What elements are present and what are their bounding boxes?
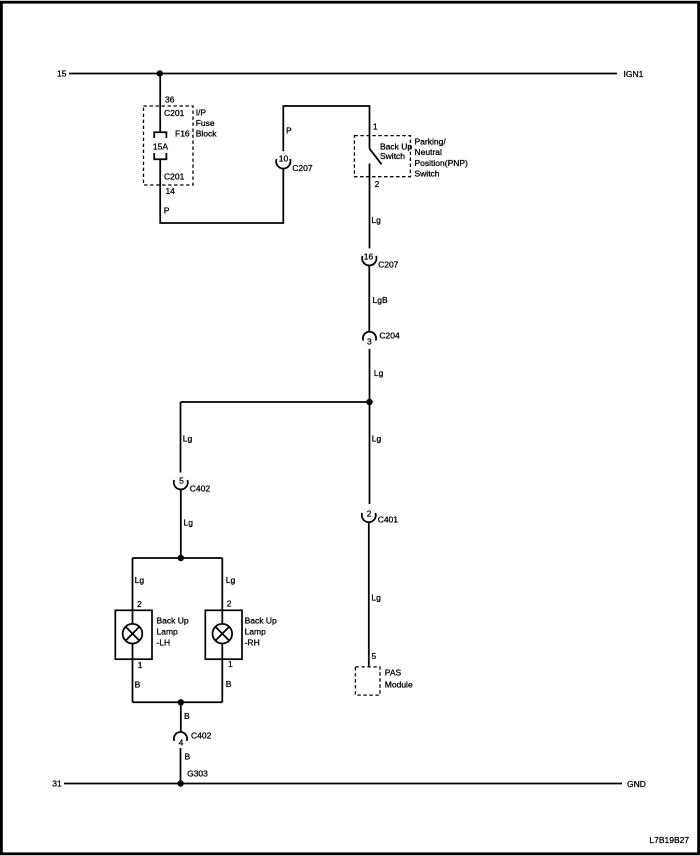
svg-text:I/P: I/P <box>196 107 207 117</box>
svg-text:GND: GND <box>627 779 646 789</box>
svg-text:G303: G303 <box>187 769 208 779</box>
svg-text:L7B19B27: L7B19B27 <box>649 835 689 845</box>
connector C402 pin 4 half-circle <box>174 732 187 741</box>
wire P from fuse to C207 <box>160 159 283 223</box>
wire branch to lamps <box>181 401 370 403</box>
svg-text:P: P <box>286 126 292 136</box>
wire Lg drop to back up lamp RH <box>221 558 223 624</box>
svg-text:Neutral: Neutral <box>415 147 443 157</box>
connector C207 pin 16 half-circle <box>362 256 376 266</box>
svg-text:Back Up: Back Up <box>380 141 412 151</box>
svg-text:Lamp: Lamp <box>157 627 179 637</box>
wire 31/GND ground line <box>64 783 622 785</box>
wire Lg from switch pin 2 to C207 pin 16 <box>369 164 371 249</box>
svg-text:Block: Block <box>196 128 218 138</box>
svg-text:2: 2 <box>227 598 232 608</box>
svg-text:1: 1 <box>373 122 378 132</box>
wire Lg from C204 to branch junction <box>369 349 371 402</box>
svg-text:Lg: Lg <box>374 368 384 378</box>
svg-text:3: 3 <box>367 336 372 346</box>
wire 15/IGN1 feed (top horizontal) <box>69 73 617 75</box>
I/P fuse block dashed box <box>144 106 194 185</box>
PAS module dashed box <box>355 667 380 695</box>
wire B from lamp RH to bottom rail <box>221 644 223 703</box>
svg-text:C207: C207 <box>378 260 399 270</box>
connector C204 pin 3 half-circle <box>363 332 376 341</box>
svg-text:Lg: Lg <box>372 434 382 444</box>
svg-text:C204: C204 <box>379 330 400 340</box>
svg-text:Lamp: Lamp <box>245 627 267 637</box>
node ground G303 junction <box>177 780 183 786</box>
svg-text:Lg: Lg <box>183 434 193 444</box>
svg-text:2: 2 <box>375 179 380 189</box>
back up lamp LH bulb circle <box>123 624 143 644</box>
svg-text:Switch: Switch <box>380 151 405 161</box>
wire LgB from C207 to C204 <box>368 266 370 332</box>
wire B from C402 to G303 <box>180 748 182 784</box>
back up lamp LH bulb cross <box>126 627 140 641</box>
svg-text:14: 14 <box>166 186 176 196</box>
wire B from rail to C402 pin 4 <box>180 702 182 732</box>
svg-text:4: 4 <box>179 738 184 748</box>
svg-text:Module: Module <box>385 680 413 690</box>
wire lamp bottom rail <box>133 701 223 703</box>
svg-text:C402: C402 <box>190 484 211 494</box>
back up switch blade <box>370 149 382 165</box>
back up lamp LH box <box>115 610 152 659</box>
svg-text:1: 1 <box>228 659 233 669</box>
svg-text:LgB: LgB <box>373 295 388 305</box>
svg-text:16: 16 <box>364 252 374 262</box>
svg-text:Switch: Switch <box>415 168 440 178</box>
back up lamp RH box <box>205 610 242 659</box>
svg-text:1: 1 <box>138 660 143 670</box>
svg-text:Back Up: Back Up <box>245 615 277 625</box>
wire from junction into fuse block <box>159 74 161 133</box>
svg-text:PAS: PAS <box>385 668 402 678</box>
svg-text:IGN1: IGN1 <box>624 69 644 79</box>
svg-text:B: B <box>184 711 190 721</box>
connector C207 pin 10 half-circle <box>276 159 290 169</box>
svg-text:Fuse: Fuse <box>196 118 215 128</box>
svg-text:2: 2 <box>137 599 142 609</box>
svg-text:5: 5 <box>372 651 377 661</box>
back up lamp RH bulb circle <box>213 624 233 644</box>
node branch junction <box>366 399 372 405</box>
svg-text:C207: C207 <box>292 163 313 173</box>
svg-text:P: P <box>164 206 170 216</box>
node bottom rail junction <box>178 699 184 705</box>
node junction on IGN1 feed <box>157 70 163 76</box>
connector C401 pin 2 half-circle <box>362 513 376 522</box>
wire lamp top rail <box>133 557 223 559</box>
back up switch upper contact stub <box>369 136 371 149</box>
svg-text:B: B <box>135 680 141 690</box>
node lamp rail junction <box>178 555 184 561</box>
svg-text:Lg: Lg <box>135 575 145 585</box>
svg-text:5: 5 <box>179 476 184 486</box>
svg-text:Lg: Lg <box>371 593 381 603</box>
fuse F16 15A top terminal <box>154 132 166 138</box>
svg-text:31: 31 <box>52 779 62 789</box>
svg-text:C401: C401 <box>378 515 399 525</box>
wire Lg drop to back up lamp LH <box>132 558 134 624</box>
svg-text:Lg: Lg <box>371 215 381 225</box>
back up switch dashed box <box>354 136 410 177</box>
svg-text:36: 36 <box>165 94 175 104</box>
svg-text:Parking/: Parking/ <box>415 136 447 146</box>
svg-text:C201: C201 <box>164 172 185 182</box>
svg-text:B: B <box>185 752 191 762</box>
wire Lg trunk to C401 <box>369 402 371 504</box>
svg-text:Lg: Lg <box>184 518 194 528</box>
svg-text:C201: C201 <box>164 108 185 118</box>
connector C402 pin 5 half-circle <box>174 480 188 489</box>
svg-text:10: 10 <box>279 153 289 163</box>
svg-text:Lg: Lg <box>226 575 236 585</box>
svg-text:15: 15 <box>57 69 67 79</box>
back up lamp RH bulb cross <box>215 627 229 641</box>
svg-text:15A: 15A <box>153 141 168 151</box>
wire Lg left branch down to C402 <box>180 402 182 473</box>
svg-text:F16: F16 <box>175 129 190 139</box>
svg-text:2: 2 <box>367 508 372 518</box>
svg-text:Position(PNP): Position(PNP) <box>415 158 469 168</box>
svg-text:-RH: -RH <box>245 637 260 647</box>
svg-text:C402: C402 <box>191 731 212 741</box>
wire P from C207 to back up switch pin 1 <box>283 106 369 151</box>
svg-text:-LH: -LH <box>157 637 171 647</box>
svg-text:B: B <box>226 679 232 689</box>
fuse F16 15A bottom terminal <box>154 153 166 159</box>
wire Lg from C401 to PAS module <box>368 522 370 667</box>
wire B from lamp LH to bottom rail <box>132 644 134 703</box>
wire Lg from C402 to lamp rail <box>180 490 182 559</box>
svg-text:Back Up: Back Up <box>157 615 189 625</box>
